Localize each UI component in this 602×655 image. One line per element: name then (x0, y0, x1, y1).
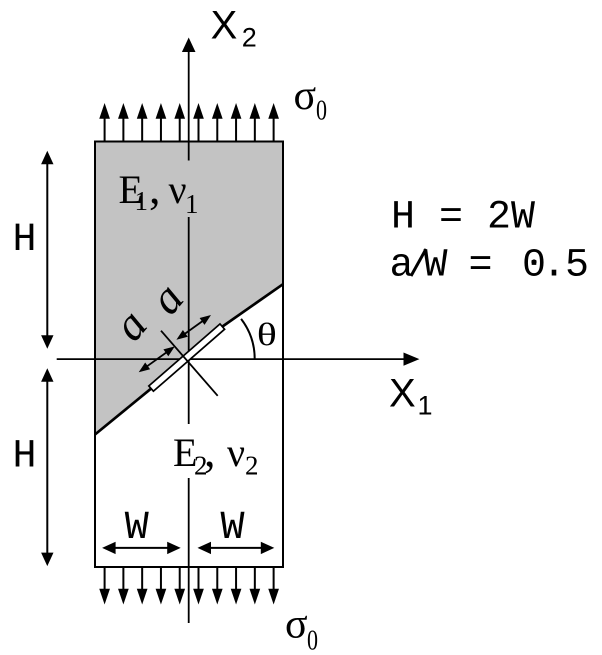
top load arrow 8 (231, 103, 242, 142)
fraction slash in a/W (411, 249, 426, 276)
X1 axis arrowhead (404, 353, 420, 366)
E1, nu1 material label (119, 162, 199, 219)
bottom load arrow 10 (268, 567, 279, 605)
svg-text:W: W (424, 244, 448, 289)
svg-text:1: 1 (135, 186, 149, 216)
X2 axis arrowhead (182, 38, 196, 53)
bottom load arrow 3 (137, 567, 148, 605)
svg-text:σ: σ (294, 73, 317, 119)
E2, nu2 material label (173, 425, 259, 481)
a dimension arrow lower-left (139, 346, 175, 372)
svg-text:.: . (542, 244, 566, 289)
svg-text:1: 1 (418, 391, 433, 421)
gray upper material region E1 (95, 142, 283, 435)
X1 axis line (57, 358, 405, 360)
svg-text:1: 1 (185, 189, 199, 219)
H dimension arrow lower (41, 368, 53, 566)
svg-text:,: , (149, 162, 161, 213)
bottom load arrow 2 (118, 567, 129, 605)
svg-text:H: H (13, 218, 37, 263)
sigma0 label top (294, 73, 328, 127)
svg-text:σ: σ (285, 602, 308, 648)
top load arrow 10 (268, 103, 279, 142)
svg-text:W: W (221, 506, 245, 551)
crack band (white slanted rectangle along interface) (149, 324, 225, 391)
svg-text:ν: ν (227, 430, 245, 475)
bottom load arrow 4 (156, 567, 167, 605)
a dimension arrow upper-right (176, 315, 211, 340)
plate outline (95, 142, 283, 568)
X2 axis upper segment (188, 50, 190, 161)
bottom load arrow 9 (249, 567, 260, 605)
svg-text:0: 0 (307, 625, 318, 655)
W dimension arrow left (102, 542, 181, 554)
svg-text:X: X (211, 3, 238, 47)
bottom load arrow 5 (174, 567, 185, 605)
svg-text:0: 0 (316, 96, 327, 127)
bottom load arrow 8 (231, 567, 242, 605)
top load arrow 7 (212, 103, 223, 142)
bottom load arrow 7 (212, 567, 223, 605)
perpendicular tick through crack center (161, 331, 218, 396)
svg-text:X: X (389, 371, 416, 415)
top load arrow 4 (156, 103, 167, 142)
svg-text:θ: θ (257, 317, 277, 352)
X1 axis label (389, 371, 433, 420)
equation a/W = 0.5 (390, 244, 590, 289)
bottom load arrow 1 (99, 567, 110, 605)
dot inside the zero of 0.5 (531, 259, 536, 264)
svg-text:,: , (204, 425, 216, 476)
svg-text:a: a (390, 244, 414, 289)
svg-text:H = 2W: H = 2W (391, 196, 535, 241)
svg-text:5: 5 (565, 244, 589, 289)
interface line lower-left segment (95, 389, 151, 435)
W dimension arrow right (198, 542, 275, 554)
top load arrow 1 (99, 103, 110, 142)
interface line upper-right segment (222, 284, 283, 326)
top load arrow 5 (174, 103, 185, 142)
svg-text:ν: ν (169, 167, 187, 212)
sigma0 label bottom (285, 602, 318, 655)
X2 axis lower segment (188, 478, 190, 623)
top load arrow 6 (193, 103, 204, 142)
svg-text:H: H (13, 434, 37, 479)
bottom load arrow 6 (193, 567, 204, 605)
svg-text:2: 2 (245, 451, 259, 481)
H dimension arrow upper (41, 151, 53, 349)
svg-text:2: 2 (242, 23, 257, 53)
top load arrow 2 (118, 103, 129, 142)
svg-text:=: = (469, 244, 493, 289)
X2 axis middle segment (188, 217, 190, 424)
top load arrow 9 (249, 103, 260, 142)
top load arrow 3 (137, 103, 148, 142)
X2 axis label (211, 3, 257, 52)
theta angle arc (241, 319, 255, 359)
svg-text:W: W (125, 506, 149, 551)
